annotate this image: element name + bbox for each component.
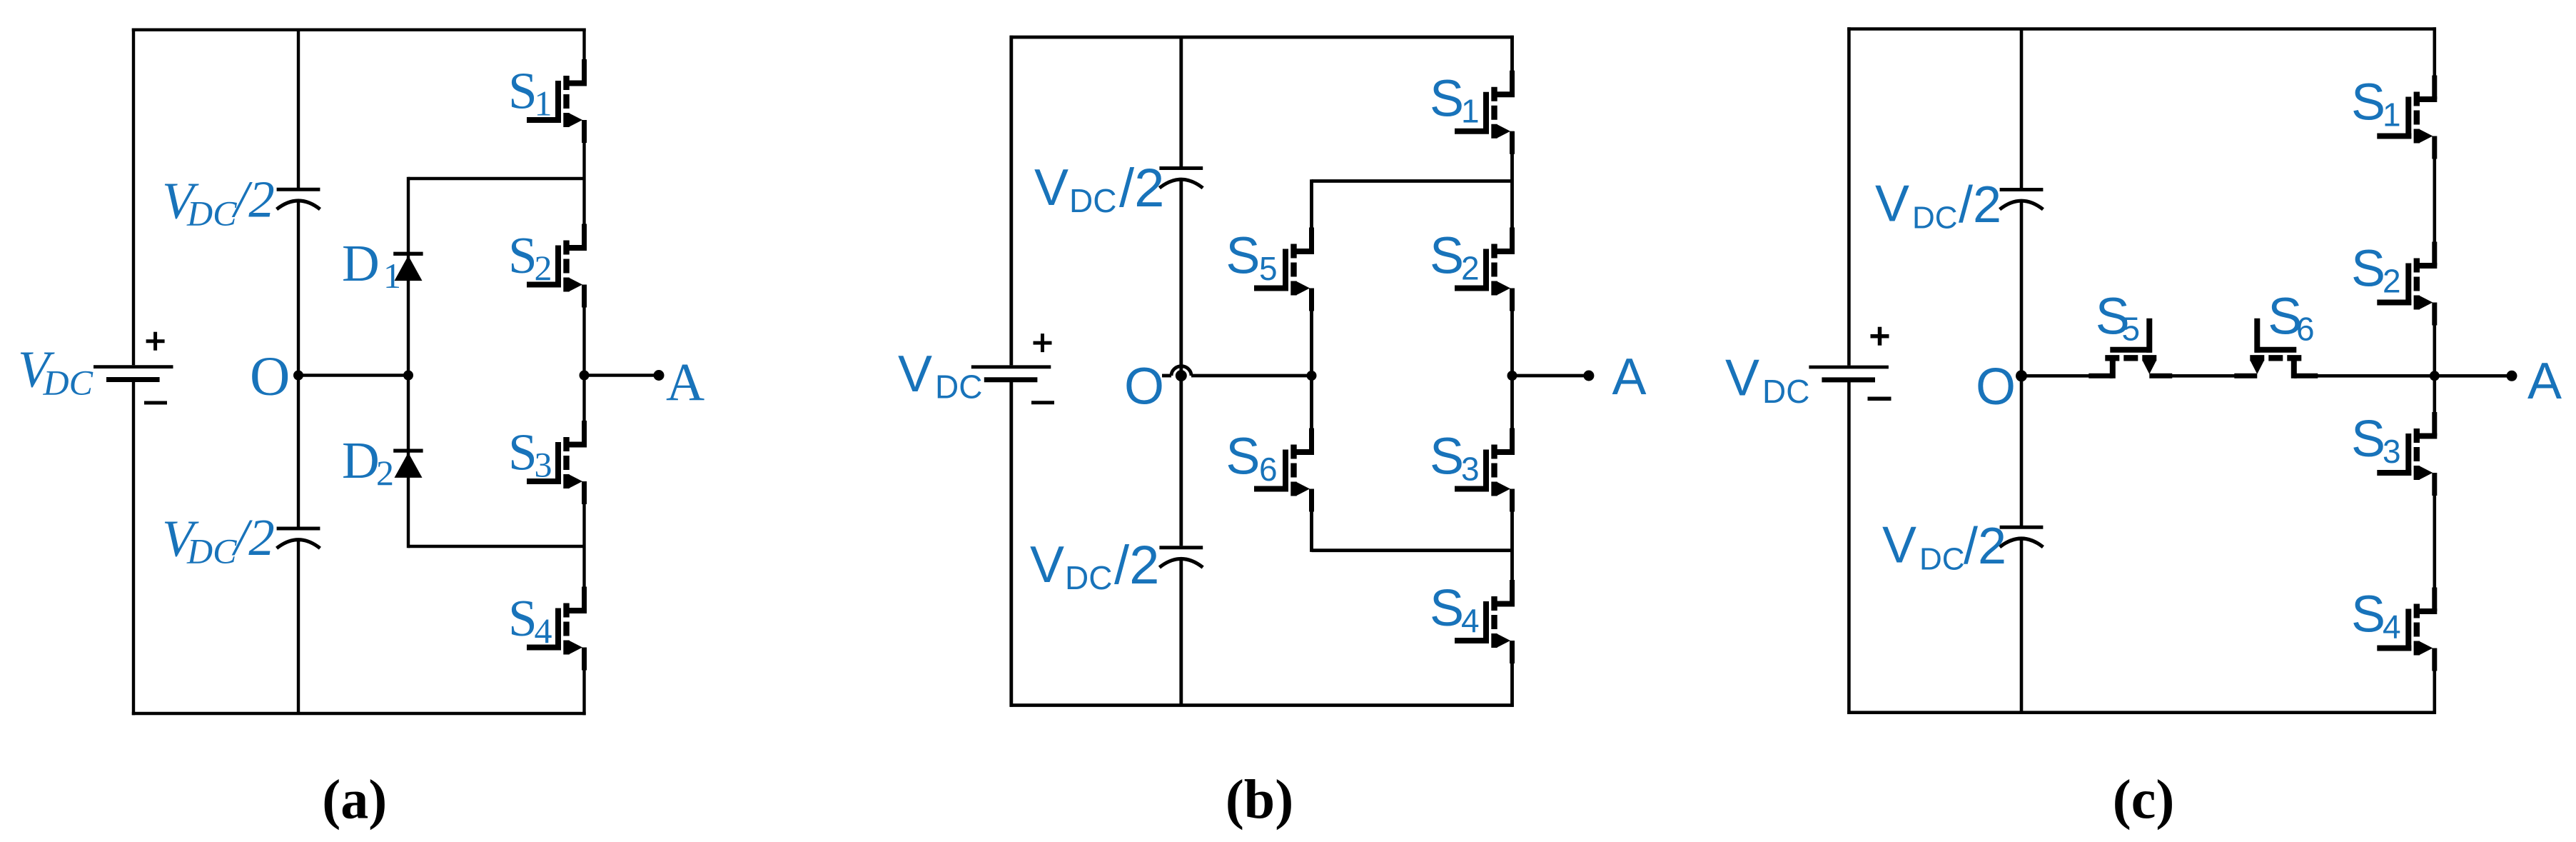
svg-text:DC: DC [1912, 200, 1958, 235]
svg-text:S: S [508, 62, 537, 120]
svg-text:DC: DC [186, 531, 237, 571]
svg-text:5: 5 [2122, 311, 2141, 348]
svg-text:/2: /2 [231, 508, 275, 566]
svg-text:2: 2 [376, 453, 394, 493]
svg-text:1: 1 [2383, 96, 2401, 134]
svg-text:O: O [250, 344, 290, 406]
svg-text:D: D [342, 234, 380, 292]
svg-text:3: 3 [2383, 433, 2401, 470]
svg-text:V: V [1882, 516, 1916, 573]
svg-text:O: O [1124, 359, 1164, 416]
svg-text:DC: DC [1919, 541, 1965, 576]
svg-text:V: V [1725, 350, 1759, 407]
svg-text:DC: DC [43, 362, 94, 402]
svg-text:A: A [1612, 349, 1647, 406]
svg-text:/2: /2 [1959, 176, 2001, 234]
svg-text:DC: DC [935, 369, 982, 406]
svg-text:4: 4 [1461, 602, 1480, 639]
svg-text:S: S [508, 226, 537, 284]
svg-text:4: 4 [535, 611, 552, 651]
svg-text:V: V [1875, 175, 1909, 232]
svg-text:DC: DC [186, 194, 237, 234]
svg-text:S: S [2351, 241, 2385, 298]
svg-text:6: 6 [1259, 451, 1278, 488]
svg-text:V: V [1034, 159, 1069, 216]
svg-text:/2: /2 [1964, 518, 2006, 575]
svg-text:/2: /2 [1119, 158, 1164, 219]
svg-text:1: 1 [383, 256, 401, 296]
svg-text:DC: DC [1065, 559, 1112, 596]
svg-text:2: 2 [2383, 263, 2401, 300]
svg-text:A: A [666, 353, 704, 412]
svg-text:5: 5 [1259, 250, 1278, 287]
svg-text:/2: /2 [231, 171, 275, 229]
svg-text:DC: DC [1762, 373, 1809, 410]
svg-text:S: S [1430, 227, 1464, 284]
svg-text:/2: /2 [1114, 535, 1159, 596]
svg-text:S: S [2351, 586, 2385, 643]
svg-text:V: V [1030, 536, 1064, 593]
svg-text:(b): (b) [1226, 768, 1293, 830]
svg-text:S: S [508, 589, 537, 647]
svg-text:S: S [1430, 428, 1464, 485]
svg-text:1: 1 [1461, 93, 1480, 130]
svg-text:1: 1 [535, 84, 552, 124]
svg-text:3: 3 [535, 445, 552, 485]
svg-text:2: 2 [535, 248, 552, 288]
svg-text:S: S [1226, 228, 1260, 285]
svg-text:6: 6 [2296, 311, 2315, 348]
svg-text:2: 2 [1461, 249, 1480, 286]
svg-text:(a): (a) [322, 768, 387, 830]
svg-text:4: 4 [2383, 608, 2401, 646]
svg-text:S: S [508, 423, 537, 481]
svg-text:S: S [2351, 411, 2385, 468]
svg-text:S: S [2351, 74, 2385, 131]
svg-text:S: S [1226, 428, 1260, 486]
svg-text:S: S [1430, 71, 1464, 128]
svg-text:DC: DC [1069, 182, 1116, 219]
svg-text:(c): (c) [2113, 768, 2175, 830]
svg-text:A: A [2527, 353, 2562, 410]
svg-text:V: V [898, 346, 932, 403]
svg-text:3: 3 [1461, 450, 1480, 487]
svg-text:D: D [342, 431, 380, 489]
svg-text:S: S [1430, 580, 1464, 637]
svg-text:O: O [1976, 359, 2016, 416]
